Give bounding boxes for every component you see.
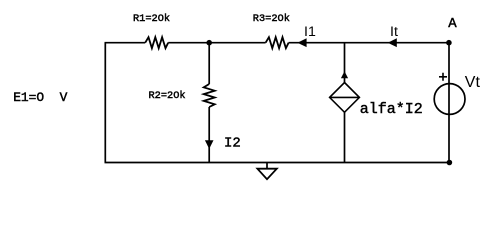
svg-text:R1=2Ok: R1=2Ok	[133, 13, 170, 25]
resistor R2	[204, 84, 215, 107]
wire R2 branch bottom	[208, 107, 210, 163]
svg-text:E1=O V: E1=O V	[13, 90, 67, 105]
svg-text:Vt: Vt	[465, 74, 481, 91]
wire top segment node to R3	[209, 42, 265, 44]
node A dot	[446, 40, 452, 46]
voltage source Vt circle	[434, 84, 465, 115]
resistor R3	[266, 37, 289, 48]
svg-text:R2=2Ok: R2=2Ok	[149, 90, 186, 102]
ground stub	[266, 163, 268, 169]
svg-text:R3=2Ok: R3=2Ok	[253, 13, 290, 25]
wire left vertical	[104, 43, 106, 163]
plus sign of Vt	[439, 73, 447, 81]
ground symbol	[257, 169, 276, 180]
wire top segment left of R1	[105, 42, 146, 44]
wire right vertical	[448, 43, 450, 163]
current arrow I2	[205, 140, 214, 149]
junction dot bottom right	[447, 160, 453, 166]
current arrow It	[388, 38, 397, 47]
svg-text:alfa*I2: alfa*I2	[360, 101, 423, 118]
wire bottom horizontal	[105, 162, 450, 164]
svg-text:A: A	[448, 16, 457, 32]
dependent current source diamond	[330, 83, 360, 113]
resistor R1	[145, 37, 168, 48]
dependent source direction arrow	[341, 71, 348, 78]
wire top segment R3 to node A	[289, 42, 449, 44]
wire dependent source branch bottom	[344, 112, 346, 162]
dependent source diamond chord	[330, 96, 360, 98]
wire dependent source branch top	[344, 43, 346, 83]
current arrow I1	[297, 38, 306, 47]
svg-text:I2: I2	[224, 136, 241, 152]
wire R2 branch top	[208, 43, 210, 84]
svg-text:I1: I1	[304, 24, 316, 40]
wire top segment R1 to node	[168, 42, 209, 44]
svg-text:It: It	[390, 24, 398, 40]
junction dot at R2 top node	[206, 40, 212, 46]
